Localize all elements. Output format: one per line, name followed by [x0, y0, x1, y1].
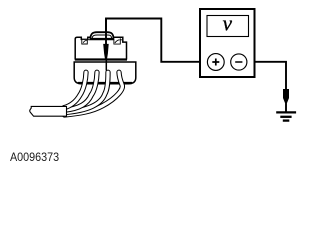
voltmeter body — [200, 9, 255, 77]
svg-text:ν: ν — [223, 11, 232, 36]
cable harness sleeve — [30, 106, 67, 116]
wire from probe to voltmeter plus terminal — [106, 19, 208, 62]
voltmeter minus terminal — [231, 54, 247, 70]
ground symbol bar 2 — [280, 116, 291, 118]
connector center seam — [105, 60, 107, 70]
connector top hump — [90, 32, 113, 39]
ground symbol bar 1 — [276, 111, 296, 113]
figure number caption — [10, 150, 59, 164]
wire W1 (leftmost) — [64, 72, 86, 107]
plus sign — [212, 59, 219, 66]
wire W2 — [64, 72, 97, 110]
ground lead — [285, 102, 287, 112]
wire W3 — [64, 72, 108, 112]
connector left latch mark — [83, 40, 87, 43]
connector upper housing thick bottom edge — [75, 58, 127, 60]
connector C1 upper housing body — [75, 37, 126, 59]
ground probe black tip — [283, 89, 289, 103]
probe P1 black tip — [103, 44, 109, 60]
connector upper housing inner rim line — [89, 39, 123, 41]
connector right latch mark — [115, 40, 120, 43]
connector right latch box — [114, 38, 120, 44]
wire W4 (rightmost) — [65, 72, 123, 115]
probe P1 wire stub into connector — [105, 19, 107, 46]
connector hump inner line — [92, 35, 111, 38]
connector lower housing thick bottom edge — [78, 82, 132, 84]
wire from voltmeter minus terminal to ground probe — [247, 62, 286, 90]
connector C1 lower housing — [74, 62, 136, 84]
connector left latch box — [82, 40, 88, 44]
minus sign — [235, 61, 242, 63]
voltmeter plus terminal — [207, 54, 224, 71]
ground symbol bar 3 — [283, 119, 290, 121]
voltmeter display window — [207, 16, 249, 37]
